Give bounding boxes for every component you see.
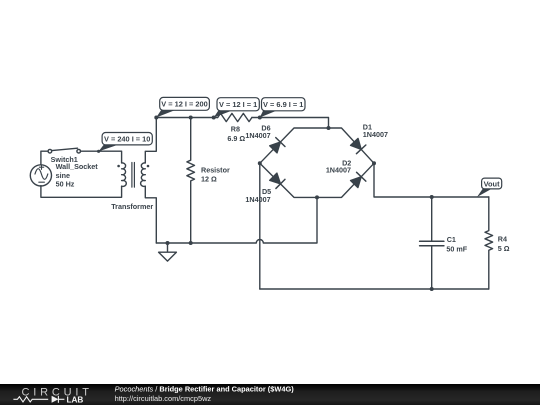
svg-text:C1: C1: [447, 235, 456, 244]
junction resistor top: [189, 116, 193, 120]
node Vout annotation: [477, 178, 502, 197]
diode D2 1N4007 bottom-right: [350, 172, 366, 188]
junction annotation anchor on switch wire: [97, 150, 100, 153]
resistor R8 6.9 ohm: [218, 113, 252, 121]
component text labels: [51, 123, 510, 254]
svg-text:LAB: LAB: [67, 395, 84, 404]
ground symbol: [159, 243, 177, 261]
svg-text:5 Ω: 5 Ω: [498, 244, 510, 253]
junction top rail left end: [154, 116, 158, 120]
svg-text:Pocochents / Bridge Rectifier: Pocochents / Bridge Rectifier and Capaci…: [115, 385, 295, 394]
footer logo resistor-diode doodle: [13, 396, 64, 403]
svg-text:V = 240 I = 10: V = 240 I = 10: [104, 134, 150, 143]
transformer T1 secondary coil: [141, 163, 146, 187]
diode D6 1N4007 top-left: [269, 138, 285, 154]
junction ground rail at resistor bottom: [189, 241, 193, 245]
transformer T1 core: [132, 163, 135, 188]
svg-text:V = 12 I = 1: V = 12 I = 1: [219, 100, 257, 109]
transformer phase dot primary: [117, 165, 120, 168]
junction R8 left: [212, 116, 216, 120]
svg-text:50 Hz: 50 Hz: [56, 179, 75, 188]
svg-text:http://circuitlab.com/cmcp5wz: http://circuitlab.com/cmcp5wz: [115, 394, 212, 403]
wire source top to switch: [41, 151, 48, 165]
svg-text:1N4007: 1N4007: [245, 195, 270, 204]
annotation V = 12 I = 200: [156, 97, 209, 117]
wire bridge left vertex down to output return rail: [259, 163, 261, 289]
svg-text:12 Ω: 12 Ω: [201, 175, 217, 184]
wire output return rail bottom: [260, 288, 489, 290]
transformer T1 primary coil: [122, 163, 127, 187]
wire bridge right vertex to output top rail: [374, 163, 489, 197]
annotation V = 12 I = 1: [214, 98, 260, 118]
svg-text:Vout: Vout: [484, 179, 500, 188]
resistor R4 5 ohm: [485, 197, 493, 289]
svg-text:Resistor: Resistor: [201, 166, 230, 175]
wire switch to transformer primary: [81, 151, 122, 163]
svg-text:1N4007: 1N4007: [363, 130, 388, 139]
bridge rectifier octagon outline: [260, 128, 374, 197]
wire secondary top to top rail: [145, 118, 156, 163]
wire secondary bottom down to ground rail: [145, 186, 156, 243]
switch Switch1: [48, 148, 80, 153]
svg-text:50 mF: 50 mF: [446, 244, 467, 253]
annotation V = 6.9 I = 1: [260, 98, 305, 118]
junction ground rail at ground stem: [166, 241, 170, 245]
junction R8 right: [258, 116, 262, 120]
junction bridge AC bottom input: [315, 195, 319, 199]
svg-text:1N4007: 1N4007: [326, 166, 351, 175]
svg-text:R8: R8: [231, 124, 240, 133]
wire top rail left segment: [156, 117, 217, 119]
junction C1 top: [430, 195, 434, 199]
svg-text:6.9 Ω: 6.9 Ω: [227, 134, 245, 143]
capacitor C1 50 mF: [420, 197, 444, 289]
diode D5 1N4007 bottom-left: [269, 172, 285, 188]
voltage source V1 Wall_Socket sine 50 Hz: [30, 165, 51, 186]
diode D1 1N4007 top-right: [350, 138, 366, 154]
resistor Resistor 12 ohm vertical: [187, 118, 195, 244]
wire ground rail with hop over output return: [156, 197, 317, 243]
svg-text:1N4007: 1N4007: [245, 131, 270, 140]
svg-text:Transformer: Transformer: [111, 202, 153, 211]
wire R8 right to bridge input: [252, 118, 329, 129]
wire source bottom to transformer primary bottom: [41, 186, 122, 198]
junction bridge left vertex: [258, 161, 262, 165]
footer bar: [0, 384, 540, 405]
svg-text:R4: R4: [498, 235, 507, 244]
svg-text:Wall_Socket: Wall_Socket: [56, 162, 99, 171]
svg-text:V = 12 I = 200: V = 12 I = 200: [161, 100, 207, 109]
svg-text:V = 6.9 I = 1: V = 6.9 I = 1: [263, 100, 303, 109]
transformer phase dot secondary: [147, 165, 150, 168]
junction bridge AC top input: [327, 126, 331, 130]
junction bridge right vertex: [372, 161, 376, 165]
junction C1 bottom: [430, 287, 434, 291]
annotation V = 240 I = 10: [99, 133, 153, 152]
